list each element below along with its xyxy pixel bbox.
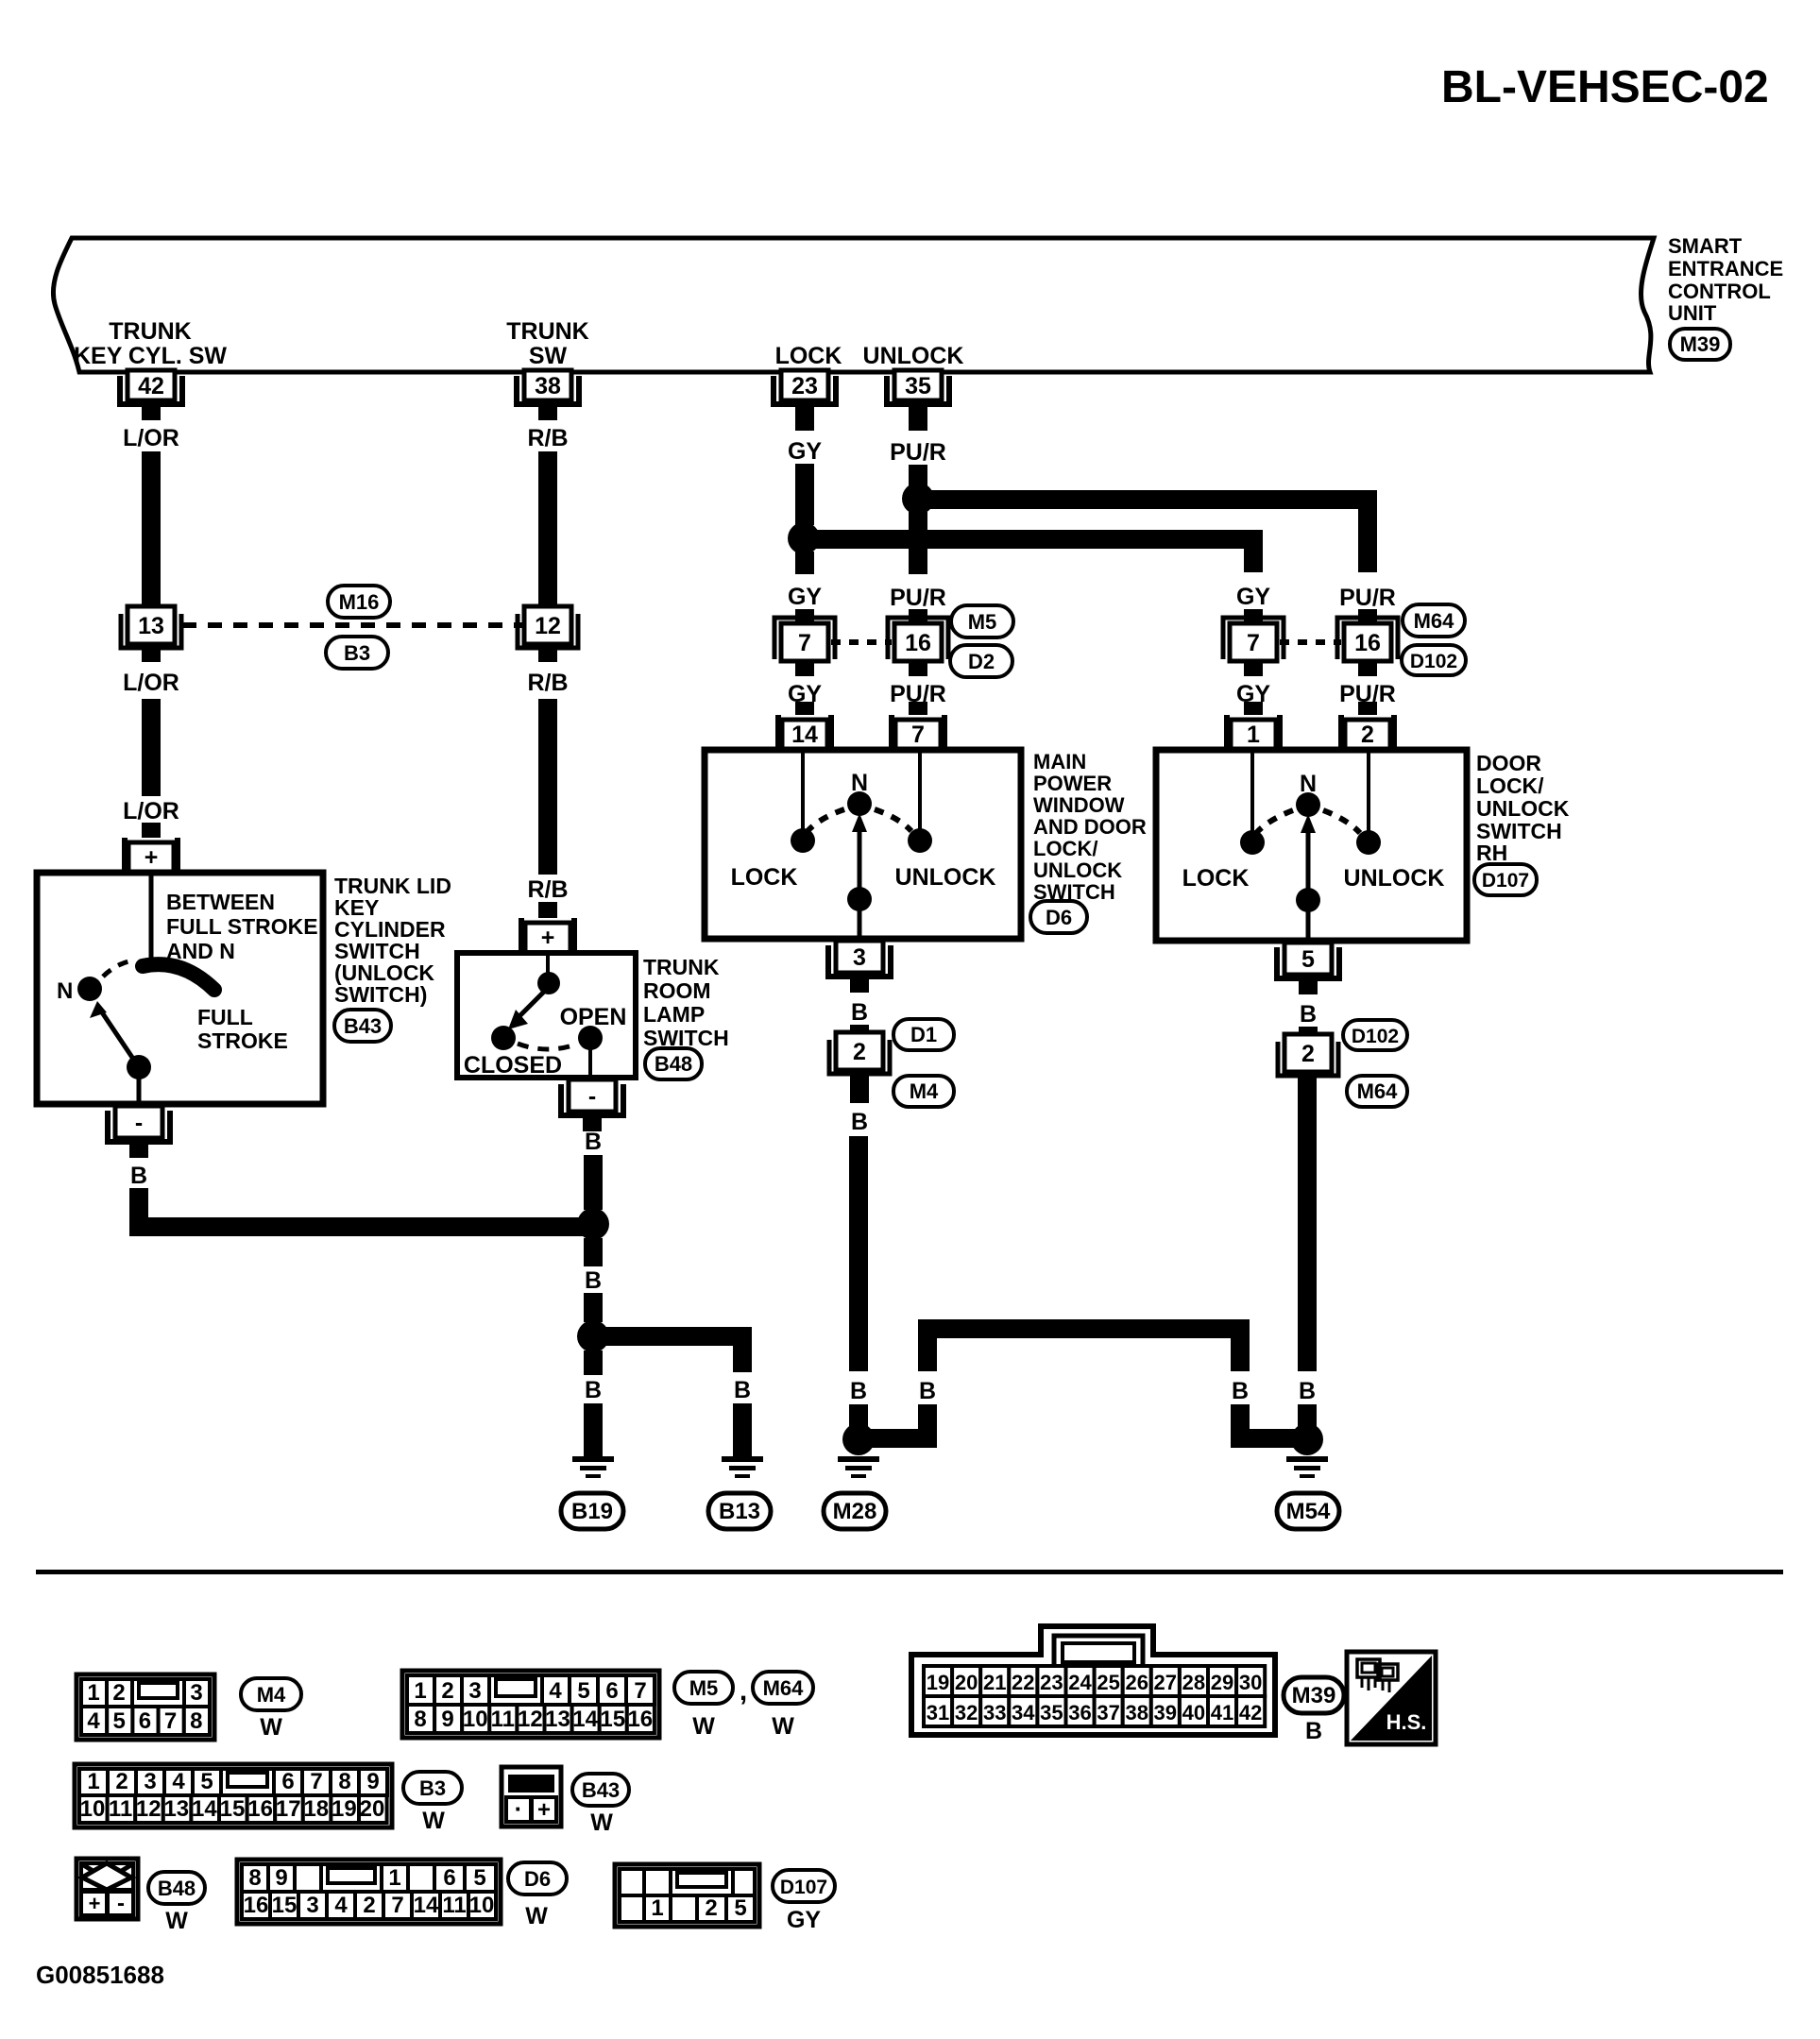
- svg-text:2: 2: [705, 1895, 717, 1921]
- D6 contact UNLOCK: [908, 828, 932, 853]
- connector face M5/M64: [402, 1671, 659, 1738]
- svg-text:CONTROL: CONTROL: [1668, 280, 1771, 303]
- svg-text:W: W: [692, 1713, 715, 1740]
- D6 name text: [1033, 750, 1147, 904]
- svg-text:M64: M64: [1357, 1079, 1399, 1103]
- wire GY junction to label: [795, 552, 814, 574]
- connector 2 (D1/M4): [829, 1032, 890, 1074]
- svg-text:16: 16: [247, 1796, 273, 1822]
- label B: [1305, 1718, 1322, 1744]
- svg-text:B48: B48: [158, 1877, 196, 1900]
- wire label B: [734, 1377, 751, 1403]
- svg-text:28: 28: [1182, 1671, 1205, 1694]
- pin 7 of D6: [889, 702, 947, 750]
- svg-text:D6: D6: [524, 1867, 551, 1891]
- junction node GY: [788, 522, 820, 554]
- svg-text:M16: M16: [339, 590, 380, 614]
- wire stub below 16: [909, 663, 927, 676]
- svg-text:10: 10: [80, 1796, 106, 1822]
- dashed link 13 to 12: [182, 622, 522, 628]
- svg-text:20: 20: [955, 1671, 978, 1694]
- svg-text:DOOR: DOOR: [1476, 751, 1541, 775]
- connector oval M54: [1277, 1493, 1339, 1529]
- svg-text:4: 4: [87, 1708, 100, 1734]
- svg-text:M5: M5: [689, 1676, 719, 1700]
- svg-text:+: +: [145, 844, 159, 871]
- svg-text:ENTRANCE: ENTRANCE: [1668, 257, 1783, 280]
- svg-text:,: ,: [740, 1675, 747, 1707]
- terminal + of B43: [122, 838, 180, 873]
- svg-text:42: 42: [138, 373, 164, 399]
- svg-text:FULL STROKE: FULL STROKE: [166, 914, 318, 939]
- wire ground bus left leg lower: [918, 1404, 937, 1448]
- svg-text:8: 8: [190, 1708, 202, 1734]
- svg-text:13: 13: [545, 1707, 570, 1732]
- svg-text:8: 8: [414, 1707, 426, 1732]
- junction node PU/R: [902, 483, 934, 515]
- connector oval M5: [951, 605, 1013, 637]
- connector oval M4: [893, 1076, 954, 1107]
- svg-text:LAMP: LAMP: [643, 1002, 705, 1027]
- svg-text:16: 16: [1354, 630, 1381, 656]
- svg-text:B: B: [1300, 1001, 1317, 1028]
- svg-text:RH: RH: [1476, 841, 1507, 865]
- B43 pivot contact: [127, 1055, 151, 1079]
- svg-text:26: 26: [1125, 1671, 1148, 1694]
- wire stub above 16: [1358, 609, 1377, 625]
- wire stub: [1298, 1404, 1317, 1426]
- label UNLOCK (pin 35): [863, 343, 964, 369]
- svg-text:H.S.: H.S.: [1386, 1710, 1427, 1734]
- label W: [165, 1908, 188, 1934]
- D107 dashed arc left: [1256, 810, 1293, 833]
- label W: [772, 1713, 794, 1740]
- wire stub below 16: [1358, 663, 1377, 676]
- wire label PU/R: [1339, 585, 1396, 611]
- svg-text:5: 5: [1301, 946, 1315, 973]
- connector oval M28: [824, 1493, 886, 1529]
- svg-text:14: 14: [192, 1796, 217, 1822]
- D107 unlock feed line: [1367, 753, 1370, 831]
- svg-text:B: B: [851, 1109, 868, 1135]
- connector oval B19: [561, 1493, 623, 1529]
- svg-text:35: 35: [905, 373, 931, 399]
- wire stub below 7: [795, 663, 814, 676]
- svg-text:GY: GY: [788, 438, 822, 465]
- connector face M4: [77, 1674, 214, 1740]
- svg-text:17: 17: [276, 1796, 301, 1822]
- svg-text:9: 9: [275, 1865, 287, 1891]
- D6 contact LOCK: [791, 828, 815, 853]
- wire stub above + terminal: [538, 902, 557, 918]
- svg-text:33: 33: [983, 1701, 1006, 1725]
- svg-text:KEY CYL. SW: KEY CYL. SW: [74, 343, 227, 369]
- svg-text:M39: M39: [1292, 1683, 1336, 1708]
- junction node M54: [1291, 1423, 1323, 1455]
- label TRUNK KEY CYL. SW: [74, 318, 227, 369]
- B43 internal feed line: [149, 875, 154, 958]
- svg-text:B: B: [585, 1129, 602, 1155]
- svg-text:LOCK: LOCK: [775, 343, 842, 369]
- wire B to ground M54: [1298, 1076, 1317, 1371]
- D107 dashed arc right: [1323, 810, 1360, 833]
- wire label B: [1232, 1378, 1249, 1404]
- ground M54: [1286, 1456, 1328, 1478]
- junction node M28: [842, 1423, 875, 1455]
- svg-text:UNLOCK: UNLOCK: [895, 864, 996, 891]
- svg-text:UNLOCK: UNLOCK: [863, 343, 964, 369]
- connector oval D107 (face): [773, 1870, 835, 1902]
- svg-text:ROOM: ROOM: [643, 978, 711, 1003]
- wire branch to B13 ground: [593, 1336, 742, 1372]
- figure number G00851688: [36, 1961, 164, 1989]
- D107 label N: [1300, 771, 1317, 797]
- wire label GY: [1236, 681, 1270, 707]
- wire stub below pin 35: [909, 407, 927, 431]
- svg-text:+: +: [541, 925, 555, 951]
- svg-text:UNLOCK: UNLOCK: [1033, 858, 1122, 882]
- svg-text:12: 12: [136, 1796, 162, 1822]
- svg-text:AND DOOR: AND DOOR: [1033, 815, 1147, 839]
- svg-text:5: 5: [473, 1865, 485, 1891]
- connector face M39: [911, 1626, 1275, 1735]
- svg-text:CLOSED: CLOSED: [464, 1052, 562, 1079]
- main power window and door lock/unlock switch D6 box: [705, 750, 1021, 939]
- svg-text:12: 12: [535, 613, 561, 639]
- connector oval D102: [1402, 645, 1466, 675]
- svg-text:M54: M54: [1286, 1499, 1331, 1524]
- wire stub: [1299, 1027, 1318, 1035]
- B43 name text: [334, 874, 451, 1007]
- comma separator: [740, 1675, 747, 1707]
- svg-text:R/B: R/B: [527, 425, 568, 451]
- svg-text:B3: B3: [419, 1776, 446, 1800]
- svg-text:14: 14: [572, 1707, 598, 1732]
- D107 pivot contact: [1296, 888, 1320, 912]
- B48 dashed arc: [518, 1044, 578, 1049]
- svg-text:TRUNK: TRUNK: [109, 318, 192, 345]
- D6 dashed arc left: [808, 809, 844, 831]
- svg-text:B19: B19: [571, 1499, 613, 1524]
- svg-text:1: 1: [388, 1865, 400, 1891]
- svg-text:PU/R: PU/R: [1339, 585, 1396, 611]
- wire label L/OR: [123, 425, 179, 451]
- svg-text:7: 7: [391, 1893, 403, 1918]
- svg-text:D102: D102: [1410, 651, 1457, 672]
- svg-text:34: 34: [1012, 1701, 1035, 1725]
- svg-text:2: 2: [115, 1769, 128, 1794]
- svg-text:BL-VEHSEC-02: BL-VEHSEC-02: [1441, 62, 1769, 112]
- wire PU/R branch to door RH: [918, 500, 1368, 572]
- connector oval M64: [1347, 1076, 1407, 1107]
- svg-text:B: B: [1232, 1378, 1249, 1404]
- svg-text:B: B: [585, 1267, 602, 1294]
- B48 label CLOSED: [464, 1052, 562, 1079]
- wire PU/R junction to label: [909, 512, 927, 574]
- B48 feed line: [546, 956, 550, 975]
- connector oval B3 (face): [403, 1772, 462, 1804]
- svg-text:-: -: [117, 1891, 125, 1916]
- B43 label N: [57, 978, 73, 1004]
- D6 pivot contact: [847, 887, 872, 911]
- svg-text:M64: M64: [763, 1676, 805, 1700]
- wire label B: [585, 1377, 602, 1403]
- svg-text:30: 30: [1239, 1671, 1262, 1694]
- svg-text:WINDOW: WINDOW: [1033, 793, 1125, 817]
- svg-text:7: 7: [798, 630, 811, 656]
- connector oval D1: [893, 1019, 954, 1050]
- svg-text:38: 38: [1125, 1701, 1148, 1725]
- svg-text:+: +: [537, 1797, 551, 1823]
- connector oval D107: [1474, 864, 1537, 895]
- B48 name text: [643, 955, 729, 1050]
- wire R/B to trunk room lamp switch: [538, 699, 557, 875]
- svg-text:M5: M5: [968, 610, 997, 634]
- wire ground bus left leg upper: [918, 1329, 937, 1371]
- D107 contact LOCK: [1240, 830, 1265, 855]
- label W: [422, 1808, 445, 1834]
- wire label B: [850, 1378, 867, 1404]
- wire label R/B: [527, 876, 568, 903]
- pin 14 of D6: [775, 702, 834, 750]
- wire GY branch to door RH: [804, 539, 1253, 572]
- svg-text:1: 1: [87, 1680, 99, 1706]
- svg-text:W: W: [772, 1713, 794, 1740]
- wire label GY: [788, 438, 822, 465]
- D6 unlock feed line: [918, 753, 922, 829]
- svg-text:3: 3: [306, 1893, 318, 1918]
- trunk lid key cylinder switch B43 box: [37, 873, 323, 1104]
- svg-text:14: 14: [791, 722, 818, 748]
- connector oval B3: [326, 637, 388, 669]
- D6 dashed arc right: [875, 809, 911, 831]
- wire label B: [1300, 1001, 1317, 1028]
- svg-text:B: B: [585, 1377, 602, 1403]
- wire label B: [1299, 1378, 1316, 1404]
- junction node B: [577, 1208, 609, 1240]
- svg-text:OPEN: OPEN: [560, 1004, 627, 1030]
- svg-text:14: 14: [414, 1893, 439, 1918]
- svg-text:B13: B13: [719, 1499, 760, 1524]
- terminal + of B48: [519, 918, 577, 953]
- wire stub above + terminal: [142, 823, 161, 838]
- connector oval B43: [334, 1010, 391, 1042]
- svg-text:UNLOCK: UNLOCK: [1476, 796, 1570, 821]
- svg-text:W: W: [260, 1714, 282, 1741]
- wire GY down to junction: [795, 464, 814, 525]
- svg-text:-: -: [135, 1110, 143, 1136]
- svg-text:2: 2: [112, 1680, 125, 1706]
- B43 contact N: [77, 977, 102, 1001]
- connector 7 (M5/D2): [774, 618, 835, 661]
- svg-text:3: 3: [468, 1678, 481, 1704]
- D6 pivot to pin3 line: [858, 899, 862, 936]
- B43 lever with arrow: [90, 1001, 139, 1067]
- wire label B: [130, 1163, 147, 1189]
- svg-text:3: 3: [190, 1680, 202, 1706]
- D107 pivot to pin5 line: [1306, 900, 1311, 938]
- pin 23: [774, 370, 836, 420]
- svg-text:R/B: R/B: [527, 670, 568, 696]
- label GY: [787, 1907, 821, 1933]
- svg-text:M4: M4: [910, 1079, 939, 1103]
- label TRUNK SW: [506, 318, 589, 369]
- door lock/unlock switch RH D107 box: [1156, 750, 1467, 941]
- svg-text:D1: D1: [910, 1023, 937, 1046]
- svg-text:41: 41: [1211, 1701, 1233, 1725]
- svg-text:D107: D107: [780, 1877, 827, 1898]
- svg-text:5: 5: [113, 1708, 126, 1734]
- wire label R/B: [527, 670, 568, 696]
- pin 5 of D107: [1277, 943, 1339, 994]
- svg-text:M4: M4: [257, 1683, 286, 1707]
- D6 lock feed line: [801, 753, 805, 829]
- B48 label OPEN: [560, 1004, 627, 1030]
- connector oval D2: [950, 645, 1012, 677]
- pin 3 of D6: [828, 941, 891, 993]
- pin 35: [887, 370, 949, 420]
- svg-text:TRUNK: TRUNK: [643, 955, 720, 979]
- svg-text:11: 11: [442, 1893, 466, 1918]
- wire to ground B13: [733, 1403, 752, 1458]
- svg-text:7: 7: [310, 1769, 322, 1794]
- svg-text:STROKE: STROKE: [197, 1028, 288, 1053]
- wire label L/OR: [123, 798, 179, 824]
- svg-text:B43: B43: [344, 1014, 382, 1038]
- connector 12 (M16/B3): [518, 606, 578, 648]
- svg-text:15: 15: [600, 1707, 625, 1732]
- wire L/OR to B43 switch: [142, 699, 161, 796]
- wire label PU/R: [890, 585, 946, 611]
- svg-text:7: 7: [164, 1708, 177, 1734]
- svg-text:18: 18: [303, 1796, 329, 1822]
- connector 2 (D102/M64): [1278, 1034, 1338, 1076]
- svg-text:UNLOCK: UNLOCK: [1344, 865, 1445, 892]
- wire PU/R down to junction: [909, 465, 927, 485]
- svg-text:7: 7: [911, 722, 925, 748]
- svg-text:MAIN: MAIN: [1033, 750, 1086, 773]
- svg-text:7: 7: [1247, 630, 1260, 656]
- svg-text:L/OR: L/OR: [123, 425, 179, 451]
- wire stub: [849, 1404, 868, 1426]
- wire ground bus M28 elbow: [859, 1429, 927, 1448]
- separator line: [36, 1570, 1783, 1574]
- label W: [590, 1810, 613, 1836]
- svg-text:19: 19: [332, 1796, 357, 1822]
- terminal - of B48: [561, 1079, 623, 1131]
- connector oval M64 (face): [753, 1672, 813, 1704]
- svg-text:2: 2: [441, 1678, 453, 1704]
- H.S. data link symbol: [1347, 1652, 1436, 1744]
- svg-text:GY: GY: [787, 1907, 821, 1933]
- wire label B: [851, 1109, 868, 1135]
- svg-text:LOCK: LOCK: [1182, 865, 1250, 892]
- svg-text:7: 7: [634, 1678, 646, 1704]
- pin 1 of D107: [1224, 702, 1283, 750]
- connector oval M39 (control unit): [1670, 329, 1730, 360]
- B43 thick stroke arc: [143, 964, 214, 990]
- svg-text:R/B: R/B: [527, 876, 568, 903]
- svg-text:42: 42: [1239, 1701, 1262, 1725]
- svg-text:B: B: [850, 1378, 867, 1404]
- ground M28: [838, 1456, 879, 1478]
- svg-text:20: 20: [360, 1796, 385, 1822]
- svg-text:4: 4: [334, 1893, 348, 1918]
- svg-text:29: 29: [1211, 1671, 1233, 1694]
- wire stub: [584, 1238, 603, 1266]
- svg-text:D2: D2: [968, 650, 995, 673]
- connector oval M5 (face): [674, 1672, 733, 1704]
- connector 13 (M16/B3): [121, 606, 181, 648]
- svg-text:37: 37: [1097, 1701, 1119, 1725]
- svg-text:2: 2: [853, 1039, 866, 1065]
- wire ground bus top: [918, 1319, 1250, 1338]
- svg-text:PU/R: PU/R: [890, 439, 946, 466]
- label W: [692, 1713, 715, 1740]
- wire label L/OR: [123, 670, 179, 696]
- svg-text:B: B: [851, 999, 868, 1026]
- svg-text:16: 16: [244, 1893, 269, 1918]
- connector face B43: [502, 1767, 561, 1827]
- svg-text:3: 3: [144, 1769, 156, 1794]
- svg-text:LOCK/: LOCK/: [1476, 773, 1544, 798]
- svg-text:D102: D102: [1352, 1026, 1399, 1047]
- svg-text:·: ·: [515, 1794, 523, 1823]
- wire label B: [851, 999, 868, 1026]
- B48 contact OPEN: [578, 1026, 603, 1050]
- svg-text:27: 27: [1154, 1671, 1177, 1694]
- svg-text:N: N: [57, 978, 73, 1004]
- wire label GY: [788, 681, 822, 707]
- svg-text:1: 1: [414, 1678, 426, 1704]
- junction node B 2: [577, 1320, 609, 1352]
- svg-text:5: 5: [577, 1678, 589, 1704]
- svg-text:10: 10: [463, 1707, 488, 1732]
- B48 top contact: [537, 972, 560, 994]
- ground B19: [572, 1456, 614, 1478]
- svg-text:1: 1: [1247, 722, 1260, 748]
- B43 text BETWEEN FULL STROKE AND N: [166, 890, 318, 963]
- svg-text:23: 23: [791, 373, 818, 399]
- svg-text:W: W: [590, 1810, 613, 1836]
- svg-text:15: 15: [272, 1893, 298, 1918]
- svg-text:W: W: [422, 1808, 445, 1834]
- svg-text:B: B: [919, 1378, 936, 1404]
- svg-text:POWER: POWER: [1033, 772, 1112, 795]
- svg-text:6: 6: [139, 1708, 151, 1734]
- wire stub: [584, 1293, 603, 1322]
- svg-text:4: 4: [172, 1769, 185, 1794]
- wire label PU/R: [890, 681, 946, 707]
- wire B from B43 to junction: [139, 1188, 593, 1227]
- D107 contact N: [1296, 792, 1320, 817]
- svg-text:16: 16: [905, 630, 931, 656]
- svg-text:B48: B48: [655, 1052, 692, 1076]
- svg-text:6: 6: [605, 1678, 618, 1704]
- trunk room lamp switch B48 box: [457, 953, 636, 1078]
- wire R/B pin38 to connector 12: [538, 451, 557, 607]
- svg-text:SW: SW: [529, 343, 568, 369]
- connector oval M39 (face): [1284, 1677, 1344, 1713]
- svg-text:1: 1: [651, 1895, 663, 1921]
- wire L/OR pin42 to connector 13: [142, 451, 161, 607]
- svg-text:21: 21: [983, 1671, 1006, 1694]
- svg-text:UNIT: UNIT: [1668, 301, 1717, 325]
- label W: [525, 1903, 548, 1929]
- D6 contact N: [847, 791, 872, 816]
- pin 42: [120, 370, 182, 420]
- svg-text:4: 4: [549, 1678, 562, 1704]
